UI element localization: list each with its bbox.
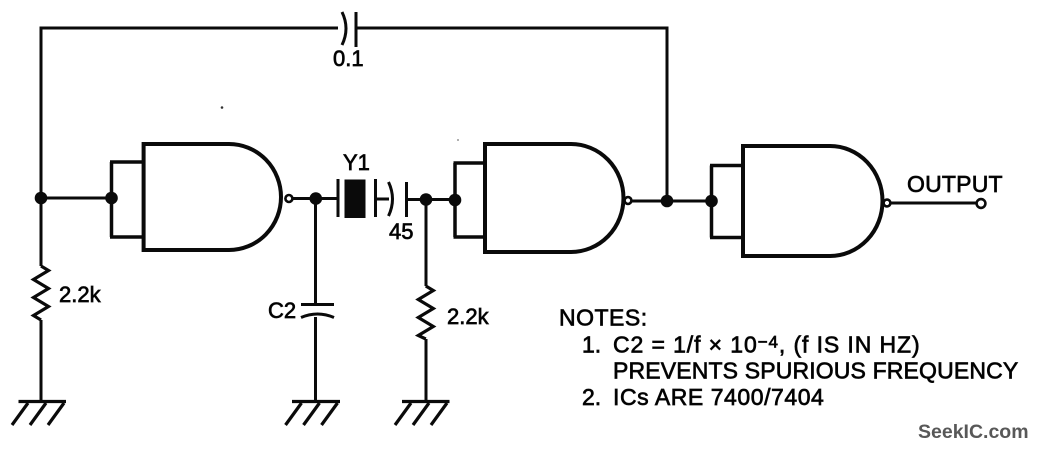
svg-text:45: 45 [389,219,413,244]
svg-text:NOTES:: NOTES: [559,305,648,331]
svg-text:0.1: 0.1 [333,46,364,71]
svg-text:2.2k: 2.2k [59,282,102,307]
svg-text:Y1: Y1 [343,150,370,175]
svg-text:PREVENTS SPURIOUS FREQUENCY: PREVENTS SPURIOUS FREQUENCY [613,358,1018,384]
svg-text:1.: 1. [582,332,601,358]
svg-text:2.2k: 2.2k [447,304,490,329]
svg-text:SeekIC.com: SeekIC.com [918,421,1029,443]
svg-text:2.: 2. [582,384,601,410]
svg-text:C2: C2 [268,298,296,323]
svg-text:ICs ARE 7400/7404: ICs ARE 7400/7404 [613,384,824,410]
svg-text:OUTPUT: OUTPUT [907,171,1003,197]
